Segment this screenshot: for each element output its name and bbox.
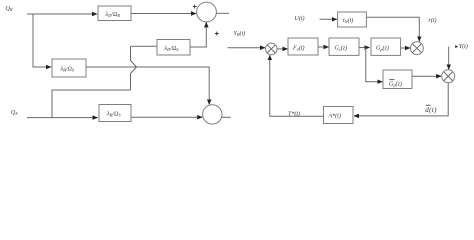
svg-text:λD/ΩR: λD/ΩR [105, 12, 121, 18]
svg-text:QS: QS [11, 110, 18, 116]
wire Gp to multiplier M2 [401, 47, 410, 49]
block lambda_B/Omega_S box (bottom) [99, 105, 131, 122]
summing junction S2 bottom [203, 105, 222, 124]
wire M3 output down and left to A* box [354, 83, 448, 116]
svg-text:Fa(t): Fa(t) [292, 45, 305, 52]
label plus right [215, 32, 219, 36]
block lambda_B/Omega_S box (left) [52, 59, 86, 77]
svg-text:Gp(z): Gp(z) [376, 45, 389, 52]
wire F to Gc [318, 46, 329, 48]
wire box4 output to bottom summer [132, 116, 203, 118]
svg-text:λB/ΩS: λB/ΩS [60, 67, 75, 73]
svg-text:Y(t): Y(t) [459, 43, 468, 50]
wire crossing jog upper [131, 46, 137, 67]
summing junction S1 [197, 2, 217, 22]
svg-text:λD/ΩS: λD/ΩS [164, 46, 180, 52]
block G_c(z) box [329, 38, 359, 55]
block A*(t) box [324, 107, 354, 124]
svg-text:λB/ΩS: λB/ΩS [106, 112, 121, 118]
wire Y(t) drop into M3 [448, 47, 450, 70]
svg-text:Gc(z): Gc(z) [335, 45, 348, 52]
multiplier M1 [266, 43, 278, 55]
wire U(t) into tN box [320, 18, 337, 20]
multiplier M3 [442, 70, 455, 83]
svg-text:T*(t): T*(t) [288, 110, 300, 117]
wire Q_S branch up [52, 90, 131, 118]
wire box1 to summer [131, 13, 196, 15]
wire Gp-bar to multiplier M3 [412, 75, 441, 77]
multiplier M2 [411, 42, 424, 55]
wire box2 output up to summer S1 [190, 22, 206, 47]
block Gp-bar box [383, 70, 412, 89]
svg-text:A*(t): A*(t) [328, 112, 341, 119]
svg-text:Gp(z): Gp(z) [389, 81, 402, 88]
svg-text:U(t): U(t) [295, 15, 305, 22]
wire Q_S input [27, 117, 98, 119]
wire Gc to Gp with tap node [359, 47, 370, 49]
wire tN box output to M2 top [366, 17, 419, 41]
wire tap down to Gp-bar box [366, 48, 383, 82]
wire S2 output [222, 116, 231, 118]
block F_a(t) box [288, 38, 318, 55]
block lambda_D/Omega_S box [157, 40, 190, 56]
svg-text:r(t): r(t) [429, 17, 437, 24]
svg-text:YR(t): YR(t) [234, 30, 246, 37]
svg-text:d(t): d(t) [425, 106, 437, 114]
wire Y_R(t) into multiplier M1 [228, 47, 266, 49]
wire M1 output to F box [277, 48, 287, 50]
svg-text:QR: QR [6, 6, 13, 12]
wire crossing jog lower [131, 67, 137, 90]
wire Q_R branch down to lambdaB box [33, 14, 51, 67]
svg-text:tN(t): tN(t) [343, 17, 353, 24]
wire box2 input [131, 45, 157, 47]
label plus top [193, 5, 197, 9]
label Y(t) with arrow [455, 45, 458, 48]
block t_N(t) box [338, 12, 367, 27]
block lambda_D/Omega_R box [98, 6, 131, 21]
wire summer output [217, 12, 230, 14]
block G_p(z) box [371, 38, 401, 55]
wire box3 output to bottom summer [86, 67, 209, 104]
wire A* output T* back up to M1 [270, 55, 324, 116]
wire Q_R input [27, 13, 97, 15]
